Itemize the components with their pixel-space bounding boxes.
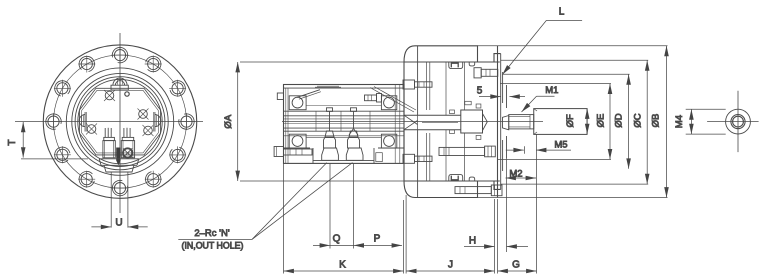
bolt hole 2: [78, 56, 95, 73]
ext line body left: [283, 163, 285, 273]
left side plug (half disc): [79, 112, 86, 132]
end view vertical centerline: [737, 91, 739, 152]
dimension A (diameter): [238, 62, 405, 181]
dimension D (diameter): [503, 74, 630, 169]
flange plate left face: [403, 62, 405, 115]
front view vertical centerline: [119, 33, 121, 213]
diagonal pair top-right: [370, 88, 414, 113]
outer flange circle: [43, 45, 196, 198]
cap screw in top cavity: [451, 63, 458, 67]
svg-text:G: G: [512, 260, 520, 271]
dimension M5: [506, 146, 571, 154]
end view horizontal centerline: [707, 121, 759, 123]
body silhouette top: [404, 46, 501, 62]
svg-text:5: 5: [477, 86, 483, 97]
svg-text:2–Rc 'N': 2–Rc 'N': [194, 228, 229, 239]
svg-text:ØC: ØC: [633, 113, 644, 127]
front view horizontal centerline: [15, 121, 203, 123]
flange step circle: [66, 68, 173, 175]
bearing block top-right: [381, 96, 396, 110]
dimension J: [406, 270, 494, 272]
hub block pointed end: [483, 114, 488, 131]
shaft chamfer: [534, 109, 537, 111]
top boss block: [111, 85, 128, 90]
svg-text:M1: M1: [545, 85, 558, 96]
small cross hole upper-left: [104, 90, 115, 101]
12 bolt holes on BCD: [45, 47, 195, 197]
svg-text:K: K: [339, 260, 346, 271]
port cluster base: [99, 159, 139, 172]
left flange bolt bottom: [403, 154, 432, 163]
ext line port2: [353, 164, 355, 249]
bolt hole 8: [145, 171, 162, 188]
2-Rc note: [178, 163, 352, 251]
cap screw in bottom cavity: [451, 176, 458, 180]
port cluster: left chimney: [103, 128, 115, 158]
ext line H left: [494, 199, 496, 274]
body outline: [284, 85, 405, 164]
bolt hole 7: [112, 180, 129, 197]
dimension U: [91, 172, 147, 228]
small cross hole lower-left: [86, 124, 97, 135]
bolt hole 5: [54, 146, 71, 163]
left bottom screw: [274, 147, 283, 157]
svg-text:ØB: ØB: [651, 114, 662, 128]
cover circle inner: [78, 79, 162, 163]
ext line G right: [536, 134, 538, 273]
svg-text:M5: M5: [554, 139, 567, 150]
center screw head: [503, 116, 509, 130]
dimension F (diameter): [586, 109, 588, 135]
small cross hole lower-right: [143, 125, 154, 136]
spindle band lines: [284, 110, 404, 112]
horizontal screw top-right: [365, 94, 382, 103]
dimension T: [21, 122, 88, 159]
left top tab: [277, 93, 283, 100]
tapped hole inner: [733, 116, 744, 127]
horizontal screw top-right: [474, 68, 498, 78]
groove lines: [404, 61, 500, 63]
right side plug (half disc): [153, 112, 160, 132]
dimension G: [498, 270, 537, 272]
bolt hole 4: [45, 113, 62, 130]
bottom horizontal bolt (head right): [439, 146, 495, 157]
left flange bolt top: [403, 80, 432, 89]
boss circle: [726, 109, 751, 134]
dimension H: [464, 246, 528, 248]
svg-text:T: T: [7, 139, 18, 145]
bearing ball top-right: [384, 97, 395, 108]
center screw shank: [509, 115, 534, 129]
port fitting 2: [346, 148, 363, 160]
bolt hole 6: [78, 171, 95, 188]
spigot: [502, 72, 504, 103]
bottom side lines: [284, 147, 311, 149]
svg-text:Q: Q: [333, 234, 341, 245]
dimension L (leader): [502, 20, 582, 74]
port cluster: right chimney: [121, 128, 134, 158]
svg-text:ØF: ØF: [565, 114, 576, 127]
check valve 2 stem: [348, 108, 360, 148]
spindle left tip chamfer: [404, 115, 418, 130]
bolt hole 11: [169, 80, 186, 97]
svg-text:ØE: ØE: [596, 114, 607, 128]
check valve 1 stem: [324, 108, 336, 148]
top edge plate bump: [317, 85, 339, 87]
svg-text:M2: M2: [509, 169, 522, 180]
svg-text:M4: M4: [674, 115, 685, 128]
bearing block top-left: [289, 96, 306, 110]
dimension B (diameter): [478, 46, 668, 198]
bearing ball top-left: [292, 97, 303, 108]
dimension E (diameter): [498, 84, 611, 160]
dimension C (diameter): [501, 60, 649, 184]
dimension M2: [506, 158, 537, 252]
recess circle: [72, 73, 168, 169]
dark crossed circle on right chimney: [123, 148, 132, 157]
bearing ball bottom-right: [384, 136, 395, 147]
output shaft: [534, 109, 587, 135]
right face: [497, 46, 499, 198]
svg-text:U: U: [115, 217, 122, 228]
dimension M4: [686, 109, 726, 134]
top dome arcs: [113, 78, 127, 85]
dark section arrow between chimneys: [116, 148, 120, 166]
svg-text:P: P: [374, 234, 381, 245]
svg-text:ØA: ØA: [223, 114, 234, 128]
spindle tube: [404, 114, 461, 116]
bolt hole 10: [178, 113, 195, 130]
bolt circle (BCD): [54, 55, 187, 188]
body silhouette bottom: [404, 181, 501, 198]
right end verticals: [394, 85, 396, 163]
thread lines on shank: [509, 116, 530, 118]
dimension Q: [313, 244, 354, 246]
bearing block bottom-right: [381, 134, 396, 148]
small cross hole upper-right: [138, 109, 149, 120]
diagonal passage top-left: [297, 90, 320, 98]
dimension 5: [479, 96, 525, 98]
horizontal screw bottom-right: [455, 185, 502, 196]
internal verticals: [315, 111, 317, 131]
svg-text:ØD: ØD: [614, 113, 625, 127]
hub block: [461, 110, 483, 133]
svg-text:L: L: [559, 6, 565, 17]
leader to port 1: [252, 163, 327, 240]
bolt hole 3: [54, 80, 71, 97]
bearing block bottom-left: [289, 134, 306, 148]
ext line flange left K: [403, 200, 405, 274]
ext line port1: [329, 164, 331, 249]
svg-text:J: J: [448, 260, 453, 271]
dimension M1 (leader): [522, 96, 555, 112]
flange plate right face: [417, 46, 419, 115]
ext line G left: [497, 199, 499, 274]
internal verticals: [426, 62, 428, 110]
dimension K: [284, 270, 404, 272]
spindle mid line: [422, 121, 458, 123]
top cap line: [284, 87, 405, 89]
port fitting 1: [322, 148, 339, 160]
main centerline: [282, 121, 543, 123]
screw head cavities below top edge: [449, 62, 463, 69]
bearing ball bottom-left: [292, 136, 303, 147]
bolt hole 9: [169, 146, 186, 163]
svg-text:H: H: [469, 236, 476, 247]
bolt hole 12: [145, 56, 162, 73]
dark dot near top: [125, 92, 129, 96]
tapped hole outer: [731, 115, 745, 129]
svg-text:(IN,OUT HOLE): (IN,OUT HOLE): [182, 241, 244, 251]
dimension P: [354, 244, 402, 246]
octagon cover plate: [80, 88, 161, 155]
mid horizontals: [306, 105, 381, 107]
ext line flange left J: [405, 195, 407, 274]
bolt hole 1: [112, 47, 129, 64]
small keys on hub: [450, 110, 455, 114]
cover circle outer: [75, 77, 165, 167]
pocket: [313, 159, 374, 161]
left cap verticals: [285, 88, 287, 163]
leader to port 2: [252, 163, 353, 240]
